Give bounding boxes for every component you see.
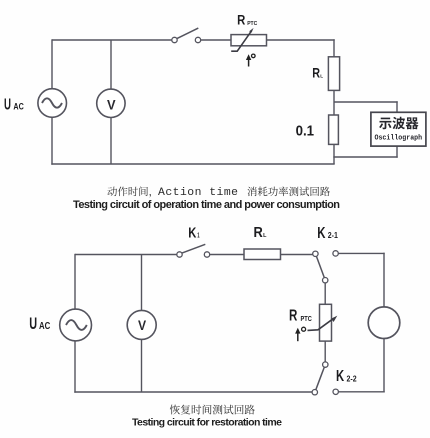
wire right vertical to meter (bottom circuit) <box>383 253 385 307</box>
label R_PTC (top circuit) <box>237 13 257 28</box>
thermistor R_PTC (top circuit) <box>231 28 267 51</box>
label U_AC (top circuit) <box>4 95 24 113</box>
svg-text:Action time: Action time <box>158 187 238 199</box>
switch K2-2 (bottom circuit) <box>312 362 338 395</box>
wire K2-1 to right corner (bottom circuit) <box>338 252 384 254</box>
label t-degree with up arrow (top circuit) <box>246 54 255 66</box>
wire voltmeter branch (bottom circuit) <box>141 255 143 311</box>
AC source U_AC (bottom circuit) <box>60 309 92 341</box>
AC source U_AC (top circuit) <box>38 89 67 118</box>
svg-text:V: V <box>107 97 116 112</box>
wire right vertical upper (top circuit) <box>333 39 335 57</box>
voltmeter V (bottom circuit) <box>127 310 156 339</box>
svg-text:K: K <box>336 367 344 384</box>
svg-text:PTC: PTC <box>301 315 313 323</box>
label R_PTC (bottom circuit) <box>289 307 312 324</box>
wire left vertical (bottom circuit) <box>74 254 76 309</box>
wire top horizontal (bottom circuit) <box>75 254 177 256</box>
svg-text:L: L <box>320 73 323 78</box>
svg-text:U: U <box>4 95 11 113</box>
caption top circuit line1 chinese <box>107 186 330 198</box>
svg-text:U: U <box>29 315 37 334</box>
label K1 <box>188 224 200 241</box>
label K2-2 <box>336 367 357 384</box>
wire between RL and 0.1 resistor <box>333 90 335 115</box>
label oscillograph chinese 示波器 <box>379 118 391 130</box>
wire oscillograph bottom lead <box>396 145 398 157</box>
caption bottom circuit line1 chinese <box>170 405 180 415</box>
label U_AC (bottom circuit) <box>29 315 50 334</box>
svg-text:V: V <box>138 317 146 333</box>
svg-text:2-1: 2-1 <box>328 230 338 239</box>
wire bottom horizontal (top circuit) <box>51 163 334 165</box>
switch S (top circuit) <box>172 28 201 43</box>
svg-text:R: R <box>312 65 320 80</box>
wire 0.1 resistor to bottom <box>333 144 335 164</box>
thermistor diagonal with foot <box>231 30 252 51</box>
wire meter to bottom corner (bottom circuit) <box>383 339 385 393</box>
label K2-1 <box>317 224 338 241</box>
wire bottom horizontal (bottom circuit) <box>74 391 312 393</box>
svg-text:R: R <box>237 13 245 28</box>
resistor R_L vertical (top circuit) <box>328 57 339 91</box>
svg-text:Testing circuit for restoratio: Testing circuit for restoration time <box>132 417 282 429</box>
resistor R_L horizontal (bottom circuit) <box>244 249 281 260</box>
wire top segment thermistor to right corner <box>267 39 335 41</box>
svg-text:0.1: 0.1 <box>296 123 315 139</box>
wire left vertical (top circuit) <box>51 39 53 89</box>
voltmeter V (top circuit) <box>97 89 125 117</box>
svg-text:AC: AC <box>39 320 51 331</box>
wire voltmeter branch (top circuit) <box>110 40 112 91</box>
svg-text:2-2: 2-2 <box>347 374 357 383</box>
wire bottom right to K2-2 (bottom circuit) <box>339 391 385 393</box>
switch K1 (bottom circuit) <box>177 244 210 257</box>
wire K2-1 to thermistor (bottom circuit) <box>324 283 326 304</box>
switch K2-1 (bottom circuit) <box>313 251 339 283</box>
svg-text:K: K <box>188 224 197 241</box>
oscillograph box <box>371 112 426 146</box>
wire thermistor to K2-2 (bottom circuit) <box>324 341 326 362</box>
wire K1 to RL (bottom circuit) <box>210 254 244 256</box>
svg-text:K: K <box>317 224 325 241</box>
wire RL to K2-1 (bottom circuit) <box>281 254 313 256</box>
meter circle (bottom circuit right) <box>368 307 400 339</box>
label R_L (bottom circuit) <box>254 224 268 240</box>
label R_L (top circuit) <box>312 65 323 80</box>
wire top-left horizontal (top circuit) <box>52 39 172 41</box>
thermistor diagonal with foot (bottom) <box>308 318 334 330</box>
svg-text:PTC: PTC <box>247 21 257 27</box>
svg-text:Oscillograph: Oscillograph <box>374 134 422 143</box>
thermistor R_PTC vertical (bottom circuit) <box>308 304 338 341</box>
wire top segment switch to thermistor <box>201 39 231 41</box>
resistor 0.1 shunt (top circuit) <box>329 115 339 144</box>
label t-degree with up arrow (bottom circuit) <box>295 327 306 341</box>
svg-text:R: R <box>254 224 263 240</box>
wire oscillograph top lead <box>334 101 398 103</box>
svg-text:AC: AC <box>13 102 24 112</box>
svg-text:R: R <box>289 307 297 324</box>
svg-text:Testing circuit of operation t: Testing circuit of operation time and po… <box>73 199 340 211</box>
